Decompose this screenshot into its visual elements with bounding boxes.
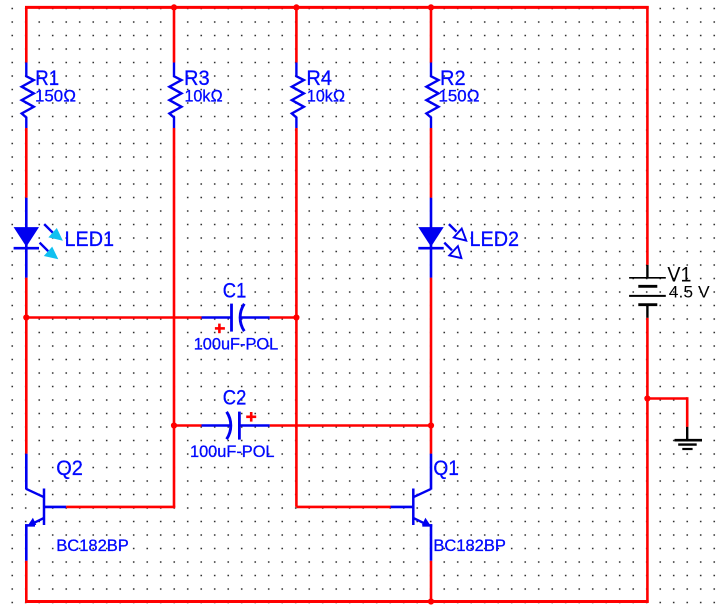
junction bottom rail Q1 emitter [428, 598, 434, 604]
junction node C1 left [23, 314, 29, 320]
resistor R3 [169, 63, 181, 129]
svg-text:100uF-POL: 100uF-POL [194, 335, 279, 354]
svg-text:150Ω: 150Ω [439, 86, 480, 105]
resistor R2 [426, 63, 438, 129]
capacitor C1 [202, 304, 270, 334]
junction node C2 left [171, 422, 177, 428]
wire top rail [25, 6, 649, 9]
wire branch R2/LED2/Q1 vertical red segments [430, 6, 433, 602]
junction node C2 right [428, 422, 434, 428]
svg-text:100uF-POL: 100uF-POL [190, 442, 275, 461]
capacitor C2 [202, 412, 270, 440]
svg-text:C1: C1 [223, 280, 247, 303]
junction ground node [644, 395, 650, 401]
svg-text:BC182BP: BC182BP [56, 536, 129, 555]
svg-text:10kΩ: 10kΩ [307, 86, 345, 105]
wire branch R4 vertical red segments [295, 6, 298, 507]
svg-text:150Ω: 150Ω [35, 86, 76, 105]
wire Q1 base to node [296, 506, 390, 509]
wire battery branch vertical red segments [646, 6, 649, 602]
resistor R4 [292, 63, 304, 129]
wire C2 horizontal red segments [174, 424, 431, 427]
junction top rail R3 [171, 4, 177, 10]
wire C1 horizontal red segments [26, 316, 296, 319]
junction top rail R2 [428, 4, 434, 10]
LED LED2 [418, 198, 466, 278]
junction node C1 right [293, 314, 299, 320]
svg-text:4.5 V: 4.5 V [669, 282, 710, 301]
svg-text:Q1: Q1 [433, 457, 459, 480]
resistor R1 [22, 63, 34, 129]
svg-text:10kΩ: 10kΩ [185, 86, 223, 105]
wire branch R3 vertical red segments [173, 6, 176, 425]
wire Q2 base to node [66, 426, 175, 507]
svg-text:BC182BP: BC182BP [433, 536, 506, 555]
wire ground stub [647, 397, 687, 427]
svg-text:C2: C2 [223, 387, 247, 410]
junction top rail R4 [293, 4, 299, 10]
ground [675, 427, 703, 449]
battery V1 [629, 265, 666, 318]
svg-text:Q2: Q2 [56, 457, 83, 480]
LED LED1 [14, 198, 63, 278]
wire bottom rail [25, 600, 649, 603]
svg-text:LED2: LED2 [470, 228, 520, 251]
wire branch R1/LED1/Q2 vertical red segments [25, 6, 28, 602]
svg-text:LED1: LED1 [65, 228, 115, 251]
transistor Q1 [391, 454, 433, 561]
transistor Q2 [25, 454, 66, 561]
